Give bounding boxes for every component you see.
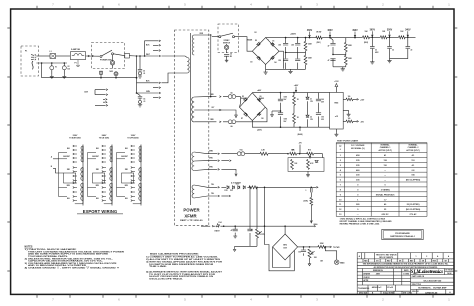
svg-text:NE2: NE2	[110, 71, 113, 73]
wire bias rail segment 2	[220, 225, 250, 227]
junction C6 C7 mid	[285, 52, 287, 54]
svg-text:D10: D10	[225, 190, 228, 192]
wire C15 C16 leads	[318, 93, 320, 128]
export 2 pin 4	[102, 157, 104, 159]
svg-text:22: 22	[392, 49, 394, 51]
B+ rail segment 2b	[355, 37, 363, 39]
svg-text:BRN: BRN	[67, 185, 70, 187]
export 2 pin 13	[102, 196, 104, 198]
svg-text:1K 5W: 1K 5W	[316, 32, 322, 34]
svg-text:SIGNAL FROM AUX: SIGNAL FROM AUX	[376, 193, 395, 196]
svg-text:(NO CLIPPING): (NO CLIPPING)	[406, 209, 421, 211]
junction C19 tap	[249, 187, 251, 189]
junction neon tap	[115, 77, 117, 79]
svg-text:YEL: YEL	[211, 193, 214, 195]
wire neutral jog to return rail	[42, 63, 137, 78]
wire zener leads	[307, 93, 309, 128]
wire BR1 ac2 to filter common	[279, 51, 283, 69]
svg-text:RED: RED	[125, 169, 128, 171]
equalizing resistor R7	[344, 42, 347, 51]
wire trim box bottom	[307, 171, 309, 173]
svg-text:100: 100	[298, 252, 301, 254]
filter capacitor C7	[283, 59, 288, 61]
ground U1	[347, 112, 351, 116]
wire neutral from inlet	[36, 62, 67, 64]
wire bias rail segment 3	[250, 225, 314, 227]
wire BR3 plus rail	[252, 92, 329, 94]
AC line inlet dashed enclosure	[21, 46, 39, 76]
svg-text:SHT 1 OF 2: SHT 1 OF 2	[403, 293, 412, 295]
capacitor C5 under standby	[224, 55, 229, 57]
pin P1-2	[92, 55, 94, 57]
screen filter capacitor C9	[330, 59, 335, 61]
export 1 pin 2	[73, 149, 75, 151]
bleeder resistor R4	[304, 41, 307, 50]
export 1 pin 7	[73, 171, 75, 173]
pin P3-7	[159, 92, 161, 94]
svg-text:POWER: POWER	[183, 208, 200, 213]
B+ rail segment 5	[405, 36, 415, 38]
export 3 pin 1	[131, 145, 133, 147]
standby switch dashed enclosure	[218, 24, 238, 52]
wire cluster bottom rail	[235, 245, 257, 247]
wire C11 leads	[389, 37, 391, 58]
export 3 pin 13	[131, 196, 133, 198]
svg-text:THIS SHT 1 REV STATUS: THIS SHT 1 REV STATUS	[376, 253, 398, 256]
svg-text:BR2: BR2	[283, 245, 286, 247]
svg-text:R76: R76	[308, 150, 311, 152]
wire BR2 outer loop	[265, 226, 295, 271]
ground bias pot	[308, 261, 311, 266]
ground LV supply mid	[271, 111, 274, 117]
test point screen arrow	[329, 32, 331, 37]
diode D10	[227, 186, 229, 189]
title block revision header text	[359, 253, 450, 262]
T1 bias winding	[192, 152, 194, 171]
wire R22 down to bias rail	[310, 205, 312, 222]
wire export feed 2	[53, 168, 64, 173]
export 1 pin 6	[73, 167, 75, 169]
svg-text:100: 100	[348, 118, 351, 120]
bias trimpot R25	[256, 229, 259, 238]
filter capacitor C6	[283, 43, 288, 45]
bridge rectifier BR2	[273, 234, 298, 260]
wire LV top tap	[194, 96, 216, 98]
dropping resistor R6	[316, 36, 322, 39]
export 2 pin 11	[102, 187, 104, 189]
svg-text:1 KHZ SIGNAL @ INPUT, ALL CONT: 1 KHZ SIGNAL @ INPUT, ALL CONTROLS @ MAX	[340, 217, 386, 220]
svg-text:230V: 230V	[73, 135, 78, 137]
resistor R14	[346, 98, 353, 101]
wire C4a lead	[139, 56, 141, 69]
BR3 diode D8	[257, 112, 261, 116]
fuse F4	[237, 152, 241, 156]
export variant 3 tap wires	[133, 146, 135, 201]
surge resistor R1	[100, 71, 103, 74]
svg-text:22: 22	[375, 49, 377, 51]
wire U1 out2	[343, 120, 346, 122]
svg-text:ACTIVE (VP-P): ACTIVE (VP-P)	[379, 149, 393, 152]
junction MOV2 tap	[64, 62, 66, 64]
standby lamp DS2	[224, 45, 228, 49]
wire BR2 out rail	[304, 246, 310, 248]
ground shared C11 C12	[387, 59, 391, 63]
P/N standard box	[382, 229, 423, 239]
power switch S1	[100, 55, 102, 57]
bias test jack J2	[334, 260, 339, 265]
BR3 diode D7	[244, 112, 248, 116]
chassis tie below fuse	[76, 60, 80, 67]
svg-text:220: 220	[291, 45, 294, 47]
svg-text:BLK: BLK	[125, 148, 128, 150]
pin bias tap3	[218, 169, 220, 171]
svg-text:L1: L1	[50, 51, 52, 53]
pin P3-1	[159, 40, 161, 42]
center tap ground arrow	[227, 110, 237, 118]
wire BR2 inner loop	[273, 247, 290, 268]
junction node B	[264, 187, 266, 189]
trim resistor R19	[291, 159, 294, 169]
pin LV center tap	[219, 109, 221, 111]
power transformer T1 dashed enclosure	[175, 30, 209, 226]
filter capacitor C14	[278, 113, 283, 115]
wire BR1 positive to B+ rail	[266, 37, 286, 39]
wire C1 to fuse	[56, 55, 70, 57]
wire R14 stub	[353, 98, 357, 100]
filter capacitor C9a	[295, 59, 300, 61]
jumper pin 5	[105, 101, 107, 103]
junction TP preamp0	[354, 37, 356, 39]
wire bias tap3 run	[221, 169, 236, 171]
export 2 pin 5	[102, 161, 104, 163]
trimpot R25 wiper arrow	[259, 231, 262, 234]
bridge rectifier BR1	[252, 38, 279, 65]
svg-text:OSCILLOSCOPE TRACE.: OSCILLOSCOPE TRACE.	[149, 278, 184, 281]
ground below standby lamp	[225, 59, 229, 62]
wire stub pin 3	[153, 50, 159, 52]
pin bias tap1	[218, 153, 220, 155]
svg-text:D.C. VOLTAGE: D.C. VOLTAGE	[351, 144, 365, 147]
wire L1 hot lead from inlet to line filter	[36, 55, 50, 57]
svg-text:---: ---	[357, 214, 359, 216]
test point preamp1 arrow	[371, 31, 373, 36]
bias trimpot R18	[307, 152, 314, 155]
notes body text	[25, 248, 125, 270]
line filter capacitor C1	[50, 54, 56, 59]
junction B+ cap2 top	[297, 37, 299, 39]
voltage regulator module U1	[330, 92, 344, 129]
wire aux tap 1	[194, 185, 217, 187]
export 1 pin 11	[73, 187, 75, 189]
wire U1 gnd pin	[343, 111, 348, 113]
svg-text:JMW: JMW	[376, 274, 380, 276]
wire switch to lamp and out	[112, 55, 114, 69]
export variant 2 tap wires	[104, 146, 106, 201]
pin P3-6	[159, 87, 161, 89]
export 3 pin 2	[131, 149, 133, 151]
ground U1 bottom	[334, 132, 338, 136]
export 3 pin 12	[131, 191, 133, 193]
capacitor C17 plates	[311, 188, 313, 192]
title block left column text	[358, 269, 412, 294]
svg-text:XFMR: XFMR	[184, 213, 197, 218]
svg-text:APPR: APPR	[363, 279, 369, 282]
zener diode Z1	[306, 97, 309, 99]
pin LV tap1	[219, 96, 221, 98]
fuse F1 element	[72, 54, 84, 56]
svg-text:220: 220	[278, 45, 281, 47]
bias pot R26	[308, 249, 311, 258]
wire switch output to junction	[113, 54, 124, 56]
wire R21 to node B	[257, 186, 265, 188]
svg-text:RED: RED	[96, 169, 99, 171]
svg-text:CARTRIDGES STD#40-40-1: CARTRIDGES STD#40-40-1	[390, 235, 416, 238]
junction screen mid	[332, 54, 334, 56]
arrow bias feed down	[310, 220, 312, 223]
svg-text:1000: 1000	[284, 118, 288, 120]
junction B+ cap1 top	[285, 37, 287, 39]
junction BR2 out	[303, 246, 305, 248]
svg-text:---: ---	[384, 180, 386, 182]
export variant 3 junction box	[122, 173, 134, 183]
neon lamp NE1	[114, 72, 118, 76]
export variant 2 bus	[88, 153, 97, 197]
svg-text:BLK: BLK	[96, 148, 99, 150]
jumper pin 2	[106, 94, 108, 96]
svg-text:+465V: +465V	[290, 33, 297, 36]
pin +15V out	[357, 99, 359, 101]
export 1 pin 14	[73, 200, 75, 202]
trim resistor R20	[307, 159, 310, 169]
junction R25 tap	[256, 187, 258, 189]
B+ rail segment 2	[346, 37, 355, 39]
export 1 pin 1	[73, 145, 75, 147]
export variant 3 bottom stub	[133, 201, 141, 204]
BR3 diode D5	[244, 98, 248, 102]
pin -15V out	[357, 121, 359, 123]
varistor MOV2	[62, 66, 66, 70]
wire HV top tap to standby feed	[194, 34, 211, 36]
wire bias tap2 stub	[221, 160, 229, 162]
svg-text:RED: RED	[67, 169, 70, 171]
wire C18 leads	[234, 226, 236, 234]
wire bias row 1	[221, 153, 260, 155]
diode D14	[216, 224, 219, 228]
junction chassis bond	[136, 92, 138, 94]
junction LV cap minus	[280, 126, 282, 128]
pot R26 wiper arrow	[311, 251, 314, 254]
svg-text:(150K): (150K)	[303, 201, 308, 203]
export 1 winding upper	[81, 146, 83, 162]
junction lamp tap	[100, 77, 102, 79]
chassis ground below MOV1	[50, 75, 54, 79]
wire BR2 out	[298, 246, 304, 248]
svg-text:(R62): (R62)	[364, 42, 368, 44]
dropping resistor R10	[380, 36, 387, 39]
junction C4a tap	[139, 55, 141, 57]
svg-text:NO SIGNAL (V): NO SIGNAL (V)	[351, 147, 365, 150]
export 2 pin 12	[102, 191, 104, 193]
export 1 pin 13	[73, 196, 75, 198]
junction preamp node 2	[389, 37, 391, 39]
export 3 pin 5	[131, 161, 133, 163]
test point chart header text	[339, 144, 420, 152]
preamp filter capacitor C11	[387, 47, 392, 49]
svg-text:F1: F1	[75, 63, 77, 65]
export 2 winding lower	[110, 183, 112, 201]
pin P3-8	[159, 97, 161, 99]
wire bias tap 2	[194, 160, 217, 162]
T1 core line	[190, 33, 192, 205]
export 3 pin 14	[131, 200, 133, 202]
svg-text:BLK/WHT: BLK/WHT	[63, 156, 70, 158]
svg-text:350V: 350V	[387, 30, 393, 32]
pin bias out arrow	[330, 246, 332, 248]
svg-text:1/17/96: 1/17/96	[403, 274, 409, 276]
bleeder resistor R5	[304, 55, 307, 64]
wire trim out	[314, 154, 323, 158]
filter common rail	[283, 68, 305, 70]
svg-text:.01: .01	[143, 101, 145, 103]
wire standby lamp leads	[226, 44, 228, 53]
pin aux row end	[316, 186, 318, 188]
junction MOV1 tap	[51, 62, 53, 64]
T1 HV secondary winding	[192, 35, 194, 55]
wire export feed 1	[53, 158, 59, 160]
svg-text:EXCEPT CHANNEL 2 GAIN, REAR MA: EXCEPT CHANNEL 2 GAIN, REAR MASTER @ MAX…	[340, 220, 393, 223]
wire bleeder leads	[305, 38, 307, 70]
svg-text:PART # TP-1250-00: PART # TP-1250-00	[180, 219, 203, 222]
junction R12 top	[293, 92, 295, 94]
wire screen caps leads	[330, 38, 346, 67]
svg-text:2: 2	[426, 256, 427, 258]
wire C13 C14 leads	[280, 93, 282, 128]
export 3 winding lower	[139, 183, 141, 201]
wire C5 stub	[226, 56, 228, 58]
BR1 diode D1	[257, 42, 261, 46]
wire R16 to trim node	[268, 153, 288, 155]
arrow bias tap3 down	[235, 171, 237, 176]
svg-text:365V: 365V	[370, 30, 376, 32]
svg-text:Z1: Z1	[310, 98, 312, 100]
svg-text:27V AC: 27V AC	[410, 213, 417, 216]
B+ rail segment 1	[286, 37, 310, 39]
svg-text:REV OF SHEETS: REV OF SHEETS	[379, 257, 394, 259]
export 3 pin 7	[131, 171, 133, 173]
junction return node	[136, 77, 138, 79]
svg-text:D11: D11	[230, 190, 233, 192]
ground C18	[233, 234, 237, 238]
svg-text:DRAWN: DRAWN	[363, 273, 370, 276]
T1 aux winding	[192, 185, 194, 198]
svg-text:.XX ±.02: .XX ±.02	[387, 287, 393, 289]
export 3 pin 10	[131, 182, 133, 184]
export 1 winding lower	[81, 183, 83, 201]
svg-text:TEST POINT CHART: TEST POINT CHART	[337, 139, 359, 142]
wire return to secondary pins	[137, 56, 159, 98]
export 1 pin 5	[73, 161, 75, 163]
resistor R24	[318, 246, 326, 249]
svg-text:REVERB, PRESENCE @ MIN. 8 OHM: REVERB, PRESENCE @ MIN. 8 OHM LOAD.	[340, 223, 381, 226]
wire C19 lower lead	[249, 233, 251, 246]
title block outline and grid	[357, 253, 454, 295]
diode D11	[232, 186, 234, 189]
resistor R22	[310, 197, 313, 205]
svg-text:BLU: BLU	[96, 198, 99, 200]
export 3 pin 3	[131, 153, 133, 155]
jumper pin 3	[106, 105, 108, 107]
wire bias feed stub	[299, 127, 301, 131]
svg-text:SLM electronics: SLM electronics	[411, 270, 444, 275]
svg-text:BRN: BRN	[125, 185, 128, 187]
wire standby to bridge BR1	[235, 37, 253, 52]
svg-text:BLU: BLU	[125, 198, 128, 200]
wire U1 top pin	[335, 87, 337, 93]
svg-text:100V: 100V	[131, 135, 136, 137]
svg-text:C5: C5	[143, 70, 145, 72]
bias trim network box	[288, 158, 324, 172]
test point B+1 arrow	[309, 32, 311, 37]
pin bias rail end	[314, 225, 316, 227]
ground C10	[370, 60, 374, 64]
junction trim node	[287, 153, 289, 155]
svg-text:22: 22	[411, 49, 413, 51]
svg-text:Z2: Z2	[310, 116, 312, 118]
svg-text:+40V: +40V	[294, 84, 299, 87]
export 1 core line	[82, 145, 84, 206]
capacitor C20	[301, 250, 306, 252]
wire bias tap 1	[194, 152, 217, 154]
wire F2 to BR3	[223, 97, 240, 108]
test point chart table grid	[336, 143, 427, 217]
wire bias rail segment 1	[214, 225, 216, 227]
power flag +15V	[335, 83, 338, 86]
wire diodes to R21	[247, 186, 249, 188]
filter capacitor C13	[278, 99, 283, 101]
resistor R21	[249, 186, 257, 189]
varistor MOV1	[50, 66, 54, 70]
fuse F3	[228, 120, 232, 124]
junction LV mid	[280, 110, 282, 112]
svg-text:25 (CLIPPED): 25 (CLIPPED)	[407, 204, 420, 206]
wire primary top tap	[162, 56, 188, 58]
wire C10 leads	[371, 37, 373, 60]
capacitor C16	[316, 113, 321, 115]
svg-text:BIAS CALIBRATION PROCEDURE:: BIAS CALIBRATION PROCEDURE:	[150, 252, 199, 255]
export 3 pin 9	[131, 180, 133, 182]
wire standby input	[212, 36, 219, 38]
dropping resistor R9	[363, 36, 370, 39]
wire bias tap 3	[194, 169, 217, 170]
svg-text:YEL: YEL	[211, 184, 214, 186]
export variant 1 bus	[59, 153, 68, 197]
wire chassis bond	[137, 93, 141, 96]
wire fuse to power switch	[86, 55, 100, 57]
export 2 winding upper	[110, 146, 112, 162]
export 1 pin 4	[73, 157, 75, 159]
pin aux tap2b	[229, 195, 231, 197]
pin bias tap2	[218, 160, 220, 162]
jumper block bars	[95, 90, 106, 106]
svg-text:GTR105-00: GTR105-00	[425, 293, 438, 295]
svg-text:(NO CLIPPING): (NO CLIPPING)	[406, 180, 421, 182]
wire C8 C9 leads	[297, 38, 299, 70]
pin P3-2	[159, 44, 161, 46]
preamp filter capacitor C12	[406, 47, 411, 49]
earth ground symbol	[139, 100, 142, 103]
junction riser at LV tap	[210, 96, 212, 98]
export 2 winding middle	[110, 168, 112, 181]
